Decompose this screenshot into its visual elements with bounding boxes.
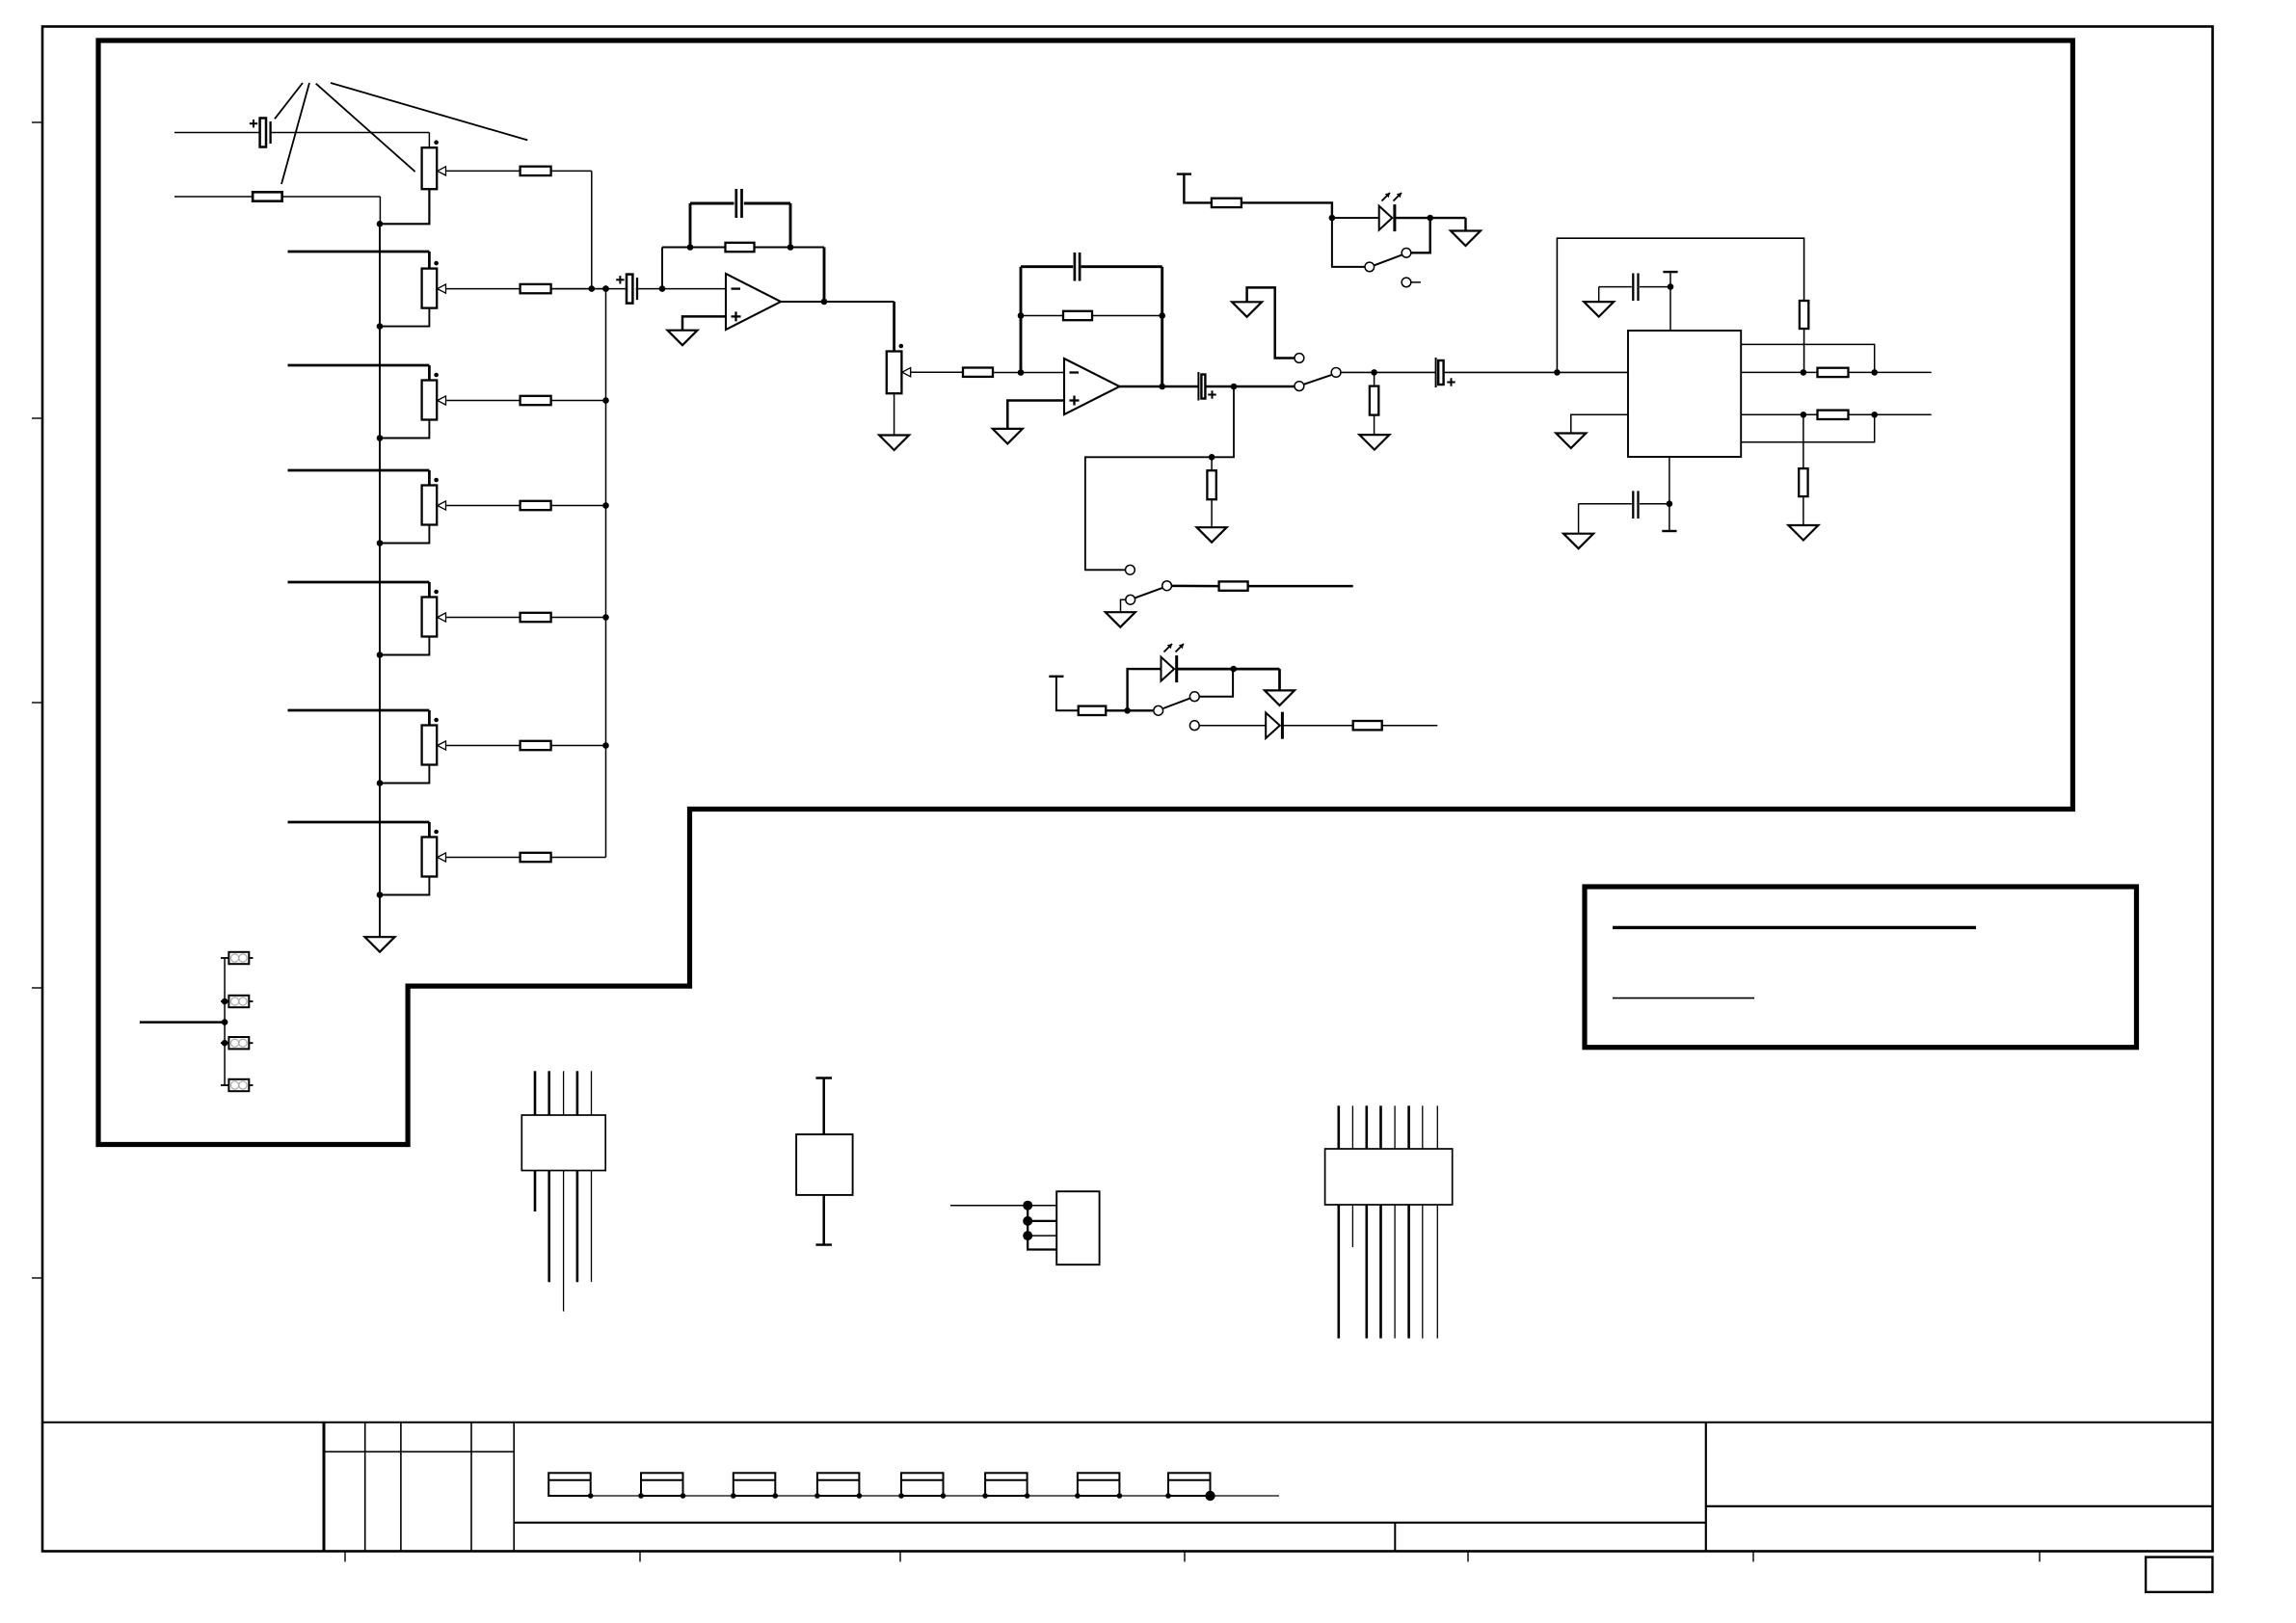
wire U2 fb vertical	[1020, 267, 1023, 373]
junction J3 2	[1023, 1216, 1032, 1226]
jumper JP2	[221, 1000, 228, 1002]
ground U1 plus	[668, 331, 698, 346]
wire R18 top	[1802, 414, 1804, 468]
frame fold tick bottom 3	[899, 1552, 901, 1562]
wire C7	[1640, 286, 1670, 288]
wire jumper bus	[224, 958, 226, 1085]
frame fold tick left 1	[32, 121, 42, 123]
junction sum bus 2	[602, 285, 609, 292]
title block divider h1	[324, 1450, 514, 1452]
jumper JP3	[221, 1042, 228, 1044]
junction J3 3	[1023, 1231, 1032, 1240]
wire SW4 low arm	[1200, 725, 1267, 727]
wire sum node	[551, 288, 627, 290]
junction out2 a	[1801, 412, 1807, 418]
wire U2 fb row	[1021, 315, 1162, 317]
ground RV8	[879, 436, 909, 451]
wire U2 output	[1120, 386, 1198, 388]
wire U1 plus to gnd	[682, 316, 726, 330]
wire R6 to bus	[551, 617, 606, 619]
junction sum bus 6	[602, 742, 609, 749]
resistor R13	[1219, 581, 1248, 590]
switch SW2 lever	[1135, 588, 1162, 598]
junction out node	[1231, 384, 1238, 390]
wire RV5 wiper	[446, 617, 520, 619]
wire SW1 to node	[1342, 371, 1436, 373]
node bus top junction	[377, 221, 384, 227]
potentiometer RV4	[422, 486, 438, 525]
frame fold tick left 2	[32, 417, 42, 419]
wire LED1 sw left	[1332, 218, 1365, 267]
wire RV4 bottom	[380, 525, 429, 544]
capacitor C6	[1435, 358, 1437, 387]
junction sum bus 5	[602, 614, 609, 621]
wire RV3 wiper	[446, 400, 520, 402]
wire input8	[288, 821, 430, 824]
junction U1 inv input	[659, 285, 666, 292]
frame fold tick bottom 2	[639, 1552, 641, 1562]
junction J3 1	[1023, 1201, 1032, 1211]
revision box bottom right	[2146, 1557, 2212, 1592]
ground C8	[1563, 534, 1593, 549]
wire R12 stems	[1211, 457, 1213, 470]
resistor R2	[253, 192, 282, 200]
wire U3 pin A loop	[1741, 344, 1875, 372]
wire U1 fb vertical	[661, 248, 663, 289]
junction U3 vcc	[1668, 283, 1674, 290]
led LED2	[1161, 657, 1175, 681]
junction U2 inv input	[1018, 369, 1025, 376]
wire R10 to U2	[993, 372, 1064, 374]
wire J3 pin2	[1028, 1220, 1056, 1222]
potentiometer RV1	[422, 147, 438, 189]
ground R14	[1359, 435, 1389, 450]
frame fold tick left 3	[32, 702, 42, 704]
wire R7 to bus	[551, 745, 606, 747]
resistor R10	[963, 368, 993, 377]
wire R18 bottom	[1802, 496, 1804, 525]
resistor R20	[1079, 706, 1107, 715]
capacitor C8	[1632, 491, 1634, 519]
resistor R18	[1799, 468, 1807, 496]
resistor R11 feedback	[1063, 311, 1092, 320]
potentiometer RV5	[422, 598, 438, 637]
resistor R3	[521, 284, 551, 293]
resistor R5	[521, 501, 551, 510]
wire input1	[174, 132, 260, 134]
notes line 2	[1613, 998, 1754, 999]
ground R12	[1197, 527, 1227, 543]
led LED1 arrows	[1382, 193, 1391, 201]
wire LED1 sw right	[1411, 218, 1430, 253]
wire U2 fb right vertical	[1161, 267, 1163, 386]
wire R3 to bus	[551, 288, 606, 290]
wire C2 to U1	[636, 288, 726, 290]
ground SW1	[1232, 302, 1262, 317]
diode D1	[1266, 712, 1280, 738]
wire input2	[174, 196, 253, 198]
junction fb right	[788, 244, 794, 251]
notes box	[1585, 887, 2137, 1048]
component X1	[815, 1077, 832, 1078]
connector J2 bottom pins	[1338, 1205, 1341, 1339]
ground SW2	[1106, 612, 1135, 627]
junction U1 output	[821, 299, 828, 306]
junction sum bus 3	[602, 397, 609, 404]
capacitor C4 feedback	[1074, 253, 1077, 281]
wire LED1 to gnd	[1464, 218, 1466, 230]
wire jumper input	[140, 1021, 225, 1024]
wire U1 fb row	[662, 247, 824, 249]
wire J3 input	[950, 1205, 1028, 1207]
wire RV2 bottom	[380, 308, 429, 327]
capacitor C2	[627, 275, 632, 304]
switch SW2 contacts	[1126, 565, 1135, 574]
switch SW1 contacts	[1295, 354, 1304, 363]
wire J3 pin1	[1028, 1205, 1056, 1207]
junction LED1 anode	[1329, 215, 1336, 222]
switch SW3 lever	[1374, 254, 1402, 265]
wire R5 to bus	[551, 505, 606, 507]
wire C5 to switch	[1206, 386, 1295, 388]
resistor R7	[521, 741, 551, 750]
switch SW3 contacts	[1365, 262, 1375, 272]
wire U3 top pin	[1669, 272, 1671, 331]
potentiometer RV2	[422, 269, 438, 308]
connector J2 body	[1325, 1149, 1453, 1205]
frame fold tick bottom 5	[1467, 1552, 1469, 1562]
wire out node down	[1085, 386, 1234, 570]
wire RV2 wiper	[446, 288, 520, 290]
connector J3 body	[1056, 1191, 1099, 1264]
ground pots bus	[365, 937, 395, 952]
resistor R16	[1818, 368, 1849, 377]
resistor R4	[521, 396, 551, 405]
ic U3	[1628, 331, 1741, 457]
ground LED1	[1451, 231, 1481, 247]
junction fb left	[687, 244, 694, 251]
wire C1 to RV1	[271, 132, 430, 134]
wire input3	[288, 251, 430, 253]
junction LED2 cathode	[1230, 666, 1237, 673]
wire fb to output	[823, 248, 826, 303]
junction U2 fb left	[1018, 312, 1025, 319]
wire RV8 wiper	[911, 371, 963, 373]
frame fold tick left 4	[32, 987, 42, 989]
op-amp U1	[726, 274, 781, 330]
power stub U3 top	[1663, 271, 1677, 273]
wire fb cap loop	[689, 203, 692, 248]
switch SW4 lever	[1163, 699, 1189, 708]
main schematic block thick border	[98, 40, 2072, 1145]
wire RV5 bottom	[380, 637, 429, 655]
title block divider v1	[323, 1423, 326, 1552]
wire summing bus	[605, 289, 607, 858]
switch SW4 contacts	[1154, 705, 1163, 715]
frame fold tick bottom 6	[1752, 1552, 1754, 1562]
wire ground bus	[379, 224, 381, 937]
frame fold tick bottom 1	[344, 1552, 346, 1562]
connector J1 bottom pins	[534, 1171, 537, 1212]
potentiometer RV3	[422, 381, 438, 420]
resistor R21	[1353, 721, 1382, 730]
title block divider v4	[470, 1423, 472, 1552]
ground U3 left	[1556, 434, 1586, 449]
frame fold tick bottom 7	[2039, 1552, 2041, 1562]
junction ground bus 7	[377, 891, 384, 898]
wire LED2 anode up	[1128, 669, 1161, 710]
wire LED1 cathode	[1396, 217, 1466, 219]
wire SW1 gnd arm	[1247, 287, 1295, 358]
resistor R6	[521, 613, 551, 622]
wire U2 plus to gnd	[1007, 401, 1064, 429]
wire SW2 to gnd	[1121, 599, 1126, 612]
resistor R19	[1212, 199, 1241, 207]
wire RV8 bottom	[894, 393, 895, 435]
wire RV7 bottom	[380, 877, 429, 895]
wire R2 to bus	[282, 196, 381, 198]
wire RV4 wiper	[446, 505, 520, 507]
jumper JP1	[221, 957, 228, 959]
junction jumper in	[222, 1019, 228, 1025]
wire R8 to bus	[551, 857, 606, 859]
wire U3 feedback loop	[1557, 238, 1803, 372]
wire U1 output	[781, 301, 894, 303]
wire U2 cap row	[1021, 265, 1073, 268]
wire U3 out2	[1741, 413, 1817, 415]
junction tape node	[1209, 454, 1215, 461]
wire R21 stub	[1382, 725, 1438, 727]
junction U3 vee	[1667, 500, 1673, 507]
junction U2 output	[1159, 384, 1165, 390]
resistor R8	[521, 853, 551, 862]
wire SW2 out	[1172, 585, 1219, 588]
title block divider v7	[1705, 1423, 1707, 1552]
ground R18	[1788, 525, 1818, 541]
junction ground bus 2	[377, 323, 384, 330]
wire LED2 sw left	[1128, 709, 1154, 711]
notes title underline	[1613, 926, 1976, 929]
title strip top line	[42, 1422, 2213, 1423]
wire out1 stub	[1849, 371, 1932, 373]
wire R13 stub	[1248, 585, 1353, 588]
power stub LED2	[1049, 676, 1063, 678]
wire input6	[288, 581, 430, 584]
power stub U3 bottom	[1662, 530, 1676, 532]
wire C8	[1640, 503, 1669, 505]
junction ground bus 5	[377, 652, 384, 658]
led LED2 arrows	[1164, 644, 1173, 652]
junction node bus	[602, 285, 609, 292]
wire U3 out1	[1741, 371, 1817, 373]
capacitor C7	[1632, 274, 1634, 302]
ground LED2	[1265, 690, 1295, 705]
junction LED1 cathode	[1427, 215, 1433, 222]
wire input4	[288, 364, 430, 367]
wire LED1 supply	[1184, 174, 1212, 203]
junction ground bus 4	[377, 540, 384, 546]
junction out1 a	[1801, 369, 1807, 376]
wire U1 out down	[893, 302, 895, 352]
power stub LED1	[1177, 173, 1191, 174]
ground C7	[1584, 302, 1614, 317]
wire out2 stub	[1849, 413, 1932, 415]
resistor R1	[521, 167, 551, 175]
title block divider v3	[400, 1423, 402, 1552]
wire input7	[288, 709, 430, 712]
connector J2 top pins	[1338, 1105, 1341, 1149]
wire J3 bus	[1028, 1206, 1056, 1250]
junction ground bus 3	[377, 435, 384, 441]
wire R4 to bus	[551, 400, 606, 402]
wire to LED1	[1332, 217, 1379, 219]
wire RV3 bottom	[380, 420, 429, 439]
ground U2 plus	[993, 429, 1023, 444]
potentiometer RV7	[422, 838, 438, 877]
capacitor C3 feedback	[734, 189, 737, 218]
switch SW3 nc dash	[1411, 281, 1421, 283]
wire R20 to node	[1106, 709, 1127, 711]
title block divider v5	[513, 1423, 515, 1552]
title block divider v2	[364, 1423, 366, 1552]
potentiometer RV6	[422, 726, 438, 765]
op-amp U2	[1064, 359, 1120, 414]
wire SW4 up arm	[1200, 669, 1234, 697]
wire U3 pin B loop	[1741, 414, 1875, 442]
junction post switch	[1371, 369, 1377, 376]
junction out1 b	[1871, 369, 1878, 376]
wire R15 to out	[1803, 329, 1805, 372]
junction ground bus 6	[377, 780, 384, 786]
wire input5	[288, 469, 430, 472]
wire U3 bottom pin	[1669, 457, 1670, 531]
title block inner line right	[1706, 1505, 2213, 1507]
wire R14 stems	[1374, 372, 1375, 386]
junction jumper 2	[222, 1040, 228, 1047]
resistor R17	[1818, 411, 1849, 419]
wire R1 to node	[551, 170, 592, 172]
resistor R15 feedback	[1800, 301, 1808, 329]
callout fan lines	[275, 83, 303, 119]
wire LED2 supply	[1056, 677, 1079, 711]
switch SW1 lever	[1304, 375, 1331, 385]
wire U3 left gnd pin	[1571, 414, 1628, 433]
capacitor C1	[260, 119, 266, 147]
wire RV1 bottom	[380, 189, 429, 224]
frame fold tick left 5	[32, 1277, 42, 1279]
junction LED2 anode	[1124, 707, 1131, 714]
junction U3 input	[1554, 369, 1561, 376]
resistor R12	[1207, 470, 1215, 499]
title block divider v6	[1394, 1523, 1396, 1552]
junction sum bus 4	[602, 502, 609, 509]
junction jumper 1	[222, 998, 228, 1005]
wire RV7 wiper	[446, 857, 520, 859]
capacitor C5 output	[1197, 372, 1199, 401]
potentiometer RV8 volume	[887, 352, 902, 394]
wire LED2 to gnd	[1278, 669, 1281, 690]
resistor R9 feedback	[726, 243, 755, 252]
frame fold tick bottom 4	[1184, 1552, 1186, 1562]
connector J1 body	[521, 1115, 605, 1171]
jumper JP4	[221, 1084, 228, 1086]
junction U2 fb right	[1159, 312, 1165, 319]
wire C6 to U3	[1444, 371, 1628, 373]
led LED1	[1379, 206, 1393, 230]
title strip inner line mid	[514, 1522, 1706, 1524]
wire J3 pin3	[1028, 1235, 1056, 1237]
footprint strip	[548, 1495, 1279, 1497]
resistor R14	[1370, 386, 1378, 415]
junction out2 b	[1871, 412, 1878, 418]
wire R19 to LED1	[1241, 202, 1332, 218]
wire RV1 wiper	[446, 170, 520, 172]
junction node pot1	[589, 285, 596, 292]
connector J1 top pins	[534, 1071, 537, 1115]
wire D1 to R21	[1283, 725, 1353, 727]
wire RV6 wiper	[446, 745, 520, 747]
wire LED2 cathode	[1177, 668, 1279, 671]
wire RV6 bottom	[380, 765, 429, 784]
